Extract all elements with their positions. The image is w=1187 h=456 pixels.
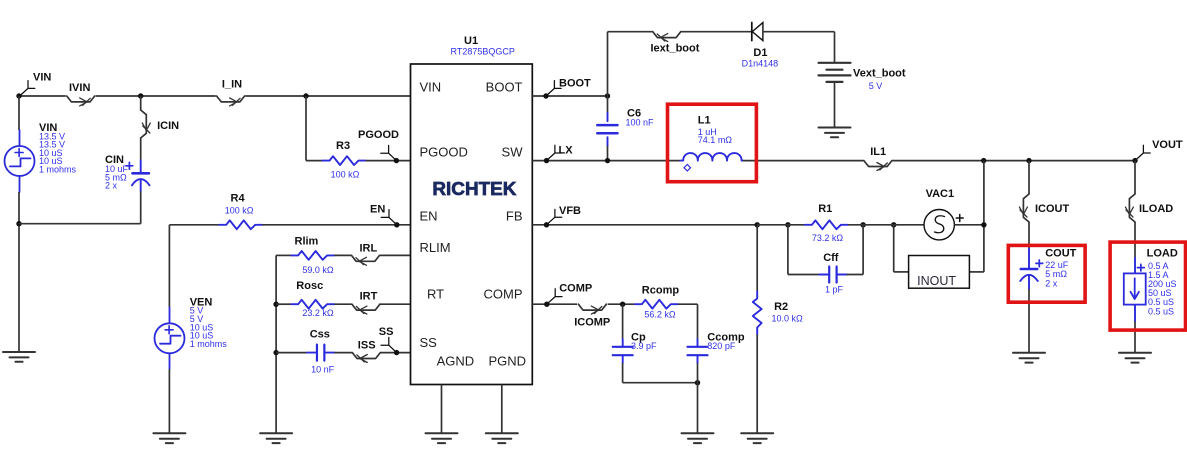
svg-text:VAC1: VAC1 (926, 188, 955, 200)
svg-text:EN: EN (370, 203, 385, 215)
svg-text:RT2875BQGCP: RT2875BQGCP (451, 47, 515, 57)
svg-text:ICOUT: ICOUT (1035, 203, 1070, 215)
svg-text:10 nF: 10 nF (311, 364, 335, 374)
svg-text:SW: SW (502, 144, 524, 159)
svg-text:1 pF: 1 pF (825, 285, 844, 295)
svg-text:R1: R1 (818, 203, 832, 215)
svg-text:2 x: 2 x (1045, 279, 1058, 289)
svg-text:ILOAD: ILOAD (1139, 203, 1173, 215)
svg-text:D1n4148: D1n4148 (742, 58, 779, 68)
svg-text:ICIN: ICIN (157, 120, 179, 132)
svg-text:RLIM: RLIM (420, 240, 451, 255)
svg-text:COUT: COUT (1045, 248, 1076, 260)
svg-text:3.9 pF: 3.9 pF (631, 341, 657, 351)
svg-text:FB: FB (506, 208, 523, 223)
svg-text:LX: LX (559, 145, 574, 157)
svg-text:PGOOD: PGOOD (420, 144, 468, 159)
svg-text:100 nF: 100 nF (626, 118, 655, 128)
svg-text:RICHTEK: RICHTEK (432, 179, 516, 199)
svg-text:Rcomp: Rcomp (642, 285, 680, 297)
svg-text:56.2 kΩ: 56.2 kΩ (644, 310, 676, 320)
svg-text:Rlim: Rlim (295, 235, 319, 247)
svg-text:SS: SS (420, 335, 438, 350)
svg-text:COMP: COMP (484, 287, 523, 302)
svg-text:PGOOD: PGOOD (358, 129, 399, 141)
svg-text:5 V: 5 V (869, 81, 883, 91)
svg-text:D1: D1 (753, 47, 767, 59)
svg-text:IRT: IRT (360, 291, 378, 303)
svg-text:100 kΩ: 100 kΩ (331, 170, 360, 180)
svg-text:IRL: IRL (360, 242, 378, 254)
svg-text:59.0 kΩ: 59.0 kΩ (302, 265, 334, 275)
svg-text:Vext_boot: Vext_boot (853, 68, 906, 80)
svg-text:IL1: IL1 (870, 146, 886, 158)
svg-text:INOUT: INOUT (917, 274, 956, 288)
svg-text:R4: R4 (231, 193, 246, 205)
svg-text:1 mohms: 1 mohms (190, 339, 228, 349)
svg-text:IVIN: IVIN (69, 82, 90, 94)
svg-text:COMP: COMP (559, 282, 592, 294)
svg-text:BOOT: BOOT (486, 80, 523, 95)
svg-text:73.2 kΩ: 73.2 kΩ (812, 233, 844, 243)
svg-text:Iext_boot: Iext_boot (651, 43, 700, 55)
svg-text:SS: SS (379, 326, 394, 338)
svg-text:VOUT: VOUT (1152, 139, 1183, 151)
svg-text:23.2 kΩ: 23.2 kΩ (302, 308, 334, 318)
svg-text:2 x: 2 x (105, 181, 118, 191)
svg-text:Rosc: Rosc (296, 280, 323, 292)
svg-text:0.5 uS: 0.5 uS (1148, 306, 1174, 316)
svg-text:R3: R3 (336, 140, 350, 152)
svg-text:PGND: PGND (488, 354, 526, 369)
svg-text:L1: L1 (698, 115, 711, 127)
svg-text:Css: Css (310, 329, 330, 341)
svg-text:ICOMP: ICOMP (574, 317, 610, 329)
svg-text:Cff: Cff (823, 252, 839, 264)
svg-text:R2: R2 (774, 301, 788, 313)
svg-text:ISS: ISS (358, 340, 376, 352)
svg-text:1 mohms: 1 mohms (39, 165, 77, 175)
svg-text:100 kΩ: 100 kΩ (225, 206, 254, 216)
svg-text:74.1 mΩ: 74.1 mΩ (698, 135, 733, 145)
svg-text:VIN: VIN (33, 72, 51, 84)
svg-text:820 pF: 820 pF (707, 341, 736, 351)
svg-text:BOOT: BOOT (559, 78, 591, 90)
svg-text:10.0 kΩ: 10.0 kΩ (772, 314, 804, 324)
svg-text:I_IN: I_IN (222, 79, 242, 91)
svg-text:AGND: AGND (437, 354, 475, 369)
svg-text:EN: EN (420, 208, 438, 223)
svg-text:VIN: VIN (420, 80, 442, 95)
svg-text:U1: U1 (464, 35, 478, 47)
svg-text:LOAD: LOAD (1147, 248, 1178, 260)
svg-text:VFB: VFB (559, 205, 581, 217)
svg-text:RT: RT (427, 287, 444, 302)
